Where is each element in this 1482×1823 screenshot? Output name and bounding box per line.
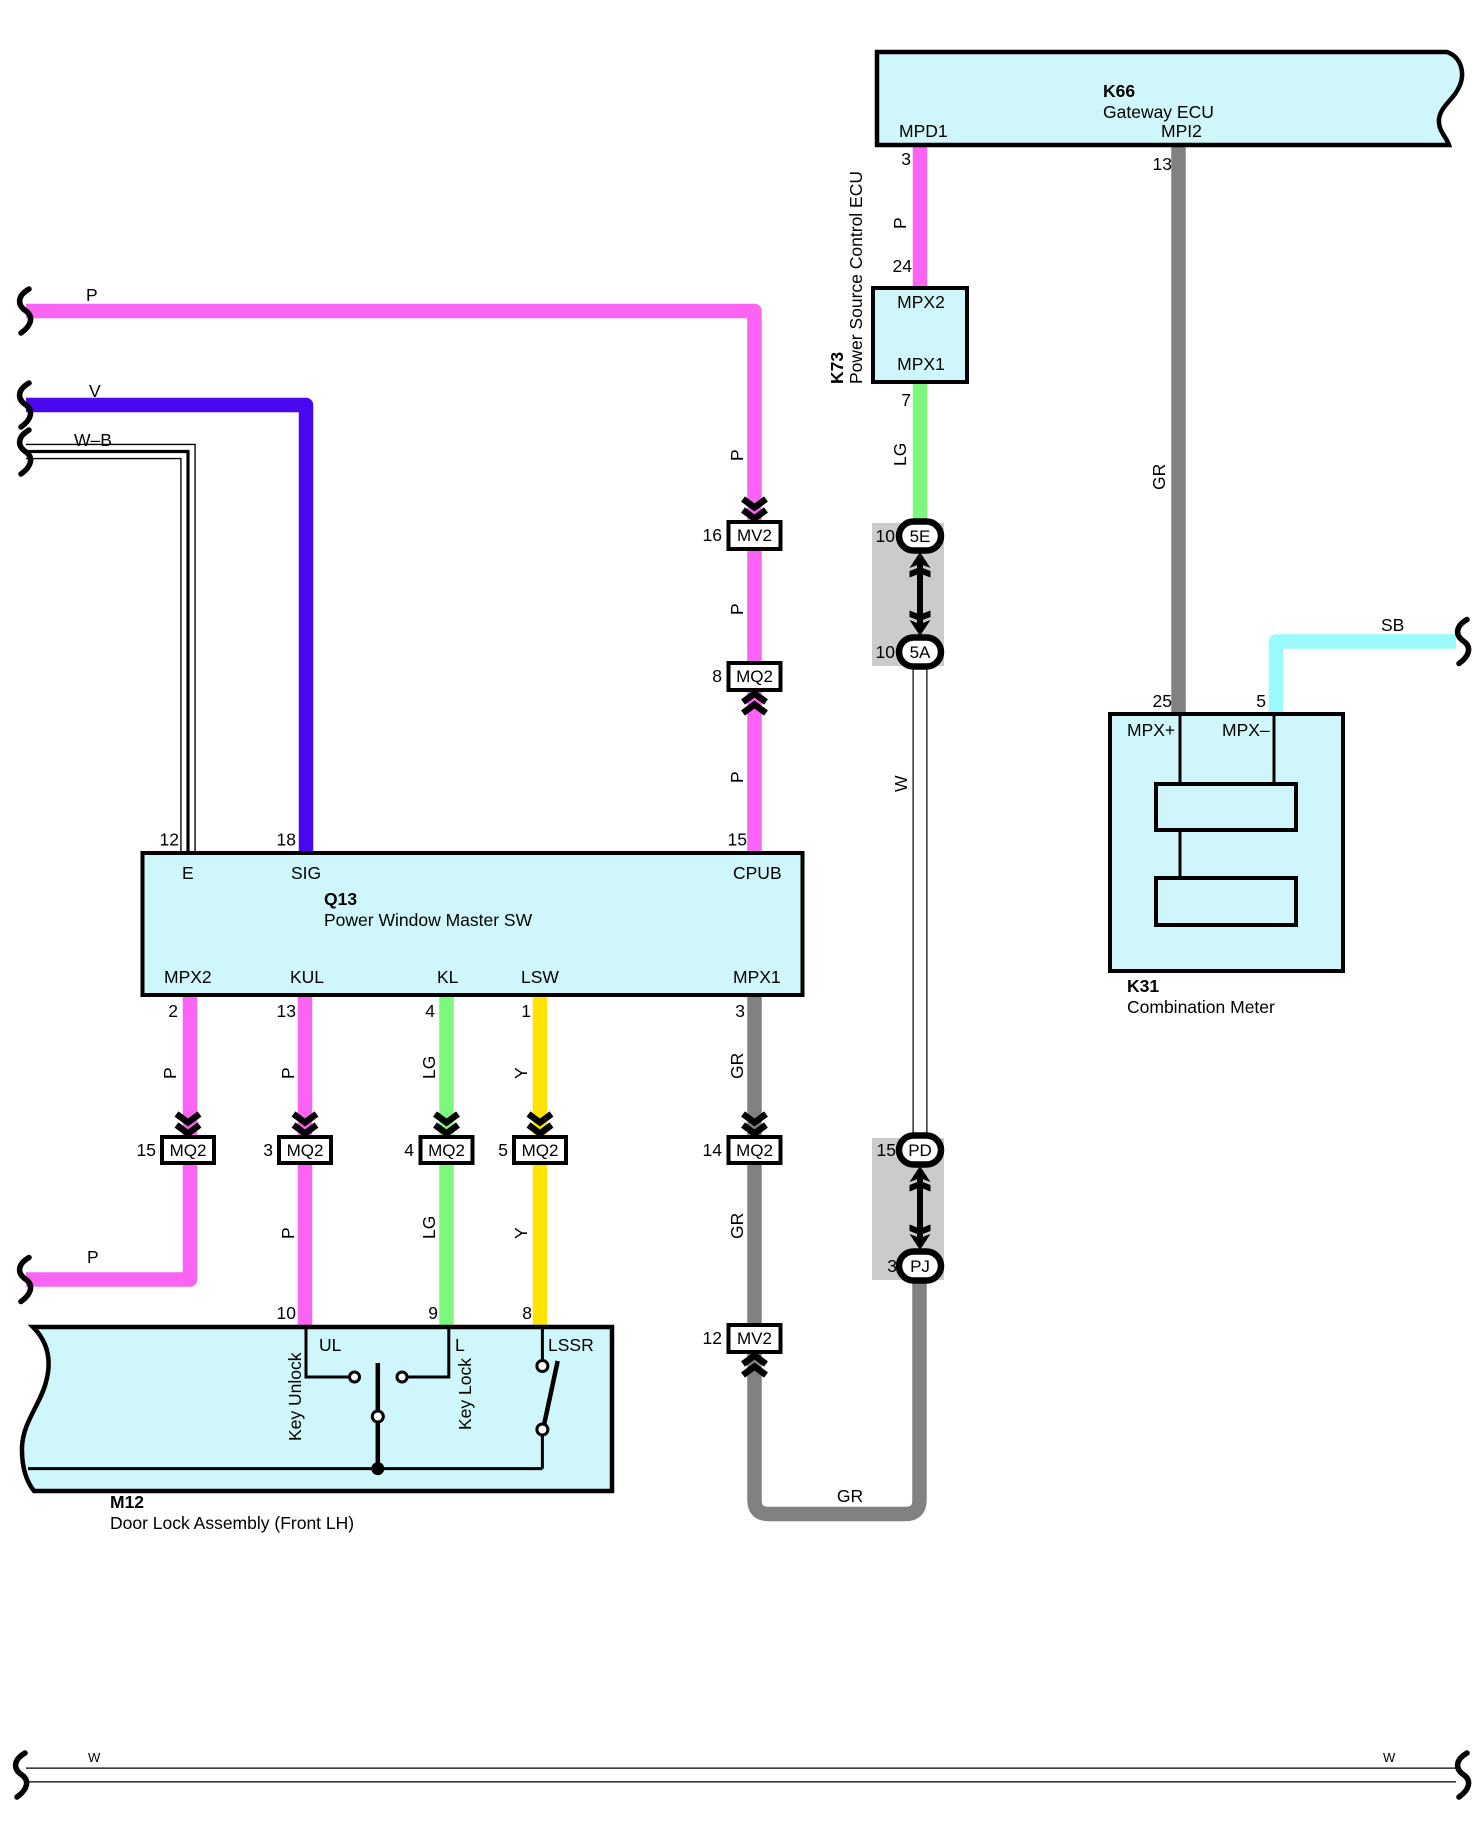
svg-text:K66: K66 xyxy=(1103,81,1135,101)
svg-text:SB: SB xyxy=(1381,615,1404,635)
svg-text:24: 24 xyxy=(893,256,913,276)
svg-text:LG: LG xyxy=(419,1216,439,1239)
wire W-B net (to E pin 12) xyxy=(26,452,188,857)
svg-text:3: 3 xyxy=(901,149,911,169)
svg-text:3: 3 xyxy=(887,1256,897,1276)
svg-text:12: 12 xyxy=(703,1328,722,1348)
junction 5A pin 10 xyxy=(876,638,941,667)
M12 junction xyxy=(371,1462,384,1475)
svg-text:W–B: W–B xyxy=(74,430,112,450)
wire LG (Q13 KL pin 4 to M12 pin 9) xyxy=(439,996,454,1332)
svg-text:Key Unlock: Key Unlock xyxy=(285,1352,305,1441)
svg-text:LSSR: LSSR xyxy=(548,1335,594,1355)
svg-text:MPX2: MPX2 xyxy=(164,967,212,987)
connector MQ2 pin 14 xyxy=(703,1114,781,1163)
svg-text:7: 7 xyxy=(901,390,911,410)
svg-text:25: 25 xyxy=(1153,691,1172,711)
junction PD pin 15 xyxy=(877,1136,941,1165)
svg-text:MQ2: MQ2 xyxy=(736,1141,773,1160)
wire W (bottom bus) xyxy=(26,1768,1456,1783)
svg-text:18: 18 xyxy=(277,830,296,850)
wire P net (left horizontal to CPUB pin 15) xyxy=(26,311,755,856)
svg-text:P: P xyxy=(86,285,98,305)
svg-text:E: E xyxy=(182,863,194,883)
wire W (5A to PD) xyxy=(913,664,928,1139)
tear SB right xyxy=(1458,620,1469,664)
svg-text:Y: Y xyxy=(511,1227,531,1239)
SW Q13 Power Window Master SW xyxy=(143,853,803,995)
svg-text:LG: LG xyxy=(419,1056,439,1079)
svg-text:Key Lock: Key Lock xyxy=(455,1358,475,1430)
M12 pin L conductor xyxy=(408,1329,449,1377)
svg-text:14: 14 xyxy=(703,1140,723,1160)
svg-text:KL: KL xyxy=(437,967,459,987)
svg-text:GR: GR xyxy=(727,1213,747,1239)
wire SB (to K31 MPX- pin 5) xyxy=(1276,642,1456,717)
svg-text:MQ2: MQ2 xyxy=(170,1141,207,1160)
svg-text:8: 8 xyxy=(712,666,722,686)
svg-text:Power Source Control ECU: Power Source Control ECU xyxy=(846,171,866,384)
svg-text:MV2: MV2 xyxy=(737,1329,772,1348)
M12 LSSR blade xyxy=(544,1361,558,1425)
tear W bottom left xyxy=(16,1753,27,1797)
svg-text:Door Lock Assembly (Front LH): Door Lock Assembly (Front LH) xyxy=(110,1513,354,1533)
svg-text:P: P xyxy=(727,603,747,615)
svg-text:MQ2: MQ2 xyxy=(522,1141,559,1160)
M12 UL contact xyxy=(350,1372,360,1382)
wire GR (Q13 MPX1 pin 3 to connector PJ) xyxy=(755,996,920,1514)
svg-text:12: 12 xyxy=(160,830,179,850)
arrow 5E-5A xyxy=(910,552,931,636)
svg-text:Y: Y xyxy=(511,1067,531,1079)
wire Y (Q13 LSW pin 1 to M12 pin 8) xyxy=(533,996,548,1332)
svg-text:MPI2: MPI2 xyxy=(1161,121,1202,141)
svg-text:8: 8 xyxy=(522,1303,532,1323)
tear W bottom right xyxy=(1458,1753,1469,1797)
tear V left xyxy=(20,383,31,427)
svg-text:W: W xyxy=(891,775,911,792)
arrow PD-PJ xyxy=(910,1166,931,1250)
svg-text:9: 9 xyxy=(428,1303,438,1323)
ECU K73 Power Source Control ECU xyxy=(827,171,967,384)
svg-text:MPX1: MPX1 xyxy=(733,967,781,987)
svg-text:P: P xyxy=(727,771,747,783)
wire LG (K73 MPX1 pin 7 to connector 5E) xyxy=(913,380,928,527)
svg-text:K73: K73 xyxy=(827,352,847,384)
M12 arm pivot circle xyxy=(372,1411,383,1422)
connector MQ2 pin 5 xyxy=(498,1114,566,1163)
M12 pin UL conductor xyxy=(306,1329,348,1377)
connector MV2 pin 12 xyxy=(703,1325,781,1375)
svg-text:Q13: Q13 xyxy=(324,889,357,909)
svg-text:2: 2 xyxy=(168,1001,178,1021)
M12 LSSR conductor xyxy=(541,1329,544,1360)
svg-text:P: P xyxy=(160,1067,180,1079)
svg-text:5E: 5E xyxy=(910,527,931,546)
svg-text:4: 4 xyxy=(404,1140,414,1160)
svg-text:1: 1 xyxy=(521,1001,531,1021)
svg-text:MPX1: MPX1 xyxy=(897,354,945,374)
connector MQ2 pin 4 xyxy=(404,1114,472,1163)
svg-text:15: 15 xyxy=(877,1140,896,1160)
connector MQ2 pin 3 xyxy=(263,1114,331,1163)
svg-text:10: 10 xyxy=(876,642,896,662)
junction PJ pin 3 xyxy=(887,1252,941,1281)
svg-text:K31: K31 xyxy=(1127,976,1159,996)
svg-text:P: P xyxy=(278,1227,298,1239)
svg-text:MQ2: MQ2 xyxy=(736,667,773,686)
M12 key switch common arm xyxy=(376,1363,381,1469)
svg-text:15: 15 xyxy=(137,1140,156,1160)
svg-text:P: P xyxy=(727,449,747,461)
svg-text:Gateway ECU: Gateway ECU xyxy=(1103,102,1214,122)
M12 common wire xyxy=(28,1467,542,1470)
M12 Door Lock Assembly (Front LH) xyxy=(22,1327,612,1533)
svg-text:MPD1: MPD1 xyxy=(899,121,948,141)
tear W-B left xyxy=(20,430,31,474)
K31 Combination Meter xyxy=(1110,714,1343,1017)
connector MQ2 pin 15 xyxy=(137,1114,214,1163)
tear P bottom left xyxy=(20,1258,31,1302)
svg-text:MQ2: MQ2 xyxy=(287,1141,324,1160)
svg-text:Power Window Master SW: Power Window Master SW xyxy=(324,910,533,930)
svg-text:V: V xyxy=(89,381,101,401)
svg-text:5A: 5A xyxy=(910,643,931,662)
junction 5E pin 10 xyxy=(876,522,941,551)
connector MV2 pin 16 xyxy=(703,499,781,549)
svg-text:GR: GR xyxy=(837,1486,863,1506)
svg-text:PJ: PJ xyxy=(910,1257,930,1276)
svg-text:MPX–: MPX– xyxy=(1222,720,1270,740)
svg-text:PD: PD xyxy=(908,1141,932,1160)
svg-text:M12: M12 xyxy=(110,1492,144,1512)
svg-text:3: 3 xyxy=(263,1140,273,1160)
wire P (Q13 KUL pin 13 to M12 pin 10) xyxy=(298,996,313,1332)
M12 LSSR bottom contact xyxy=(537,1424,548,1435)
svg-text:10: 10 xyxy=(277,1303,297,1323)
svg-text:L: L xyxy=(455,1335,465,1355)
svg-text:GR: GR xyxy=(727,1053,747,1079)
svg-text:MV2: MV2 xyxy=(737,526,772,545)
connector MQ2 pin 8 xyxy=(712,663,780,713)
svg-text:W: W xyxy=(88,1750,101,1765)
M12 pin labels xyxy=(285,1335,594,1441)
svg-text:P: P xyxy=(87,1247,99,1267)
svg-text:MQ2: MQ2 xyxy=(428,1141,465,1160)
svg-text:W: W xyxy=(1383,1750,1396,1765)
ECU K66 Gateway ECU xyxy=(877,52,1462,145)
svg-text:16: 16 xyxy=(703,525,722,545)
tear P left xyxy=(20,289,31,333)
svg-text:LSW: LSW xyxy=(521,967,559,987)
M12 LSSR top contact xyxy=(537,1361,548,1372)
svg-text:4: 4 xyxy=(425,1001,435,1021)
connector shade PD-PJ xyxy=(872,1138,944,1280)
wire P (Q13 MPX2 pin 2 down and left) xyxy=(26,996,190,1280)
svg-text:Combination Meter: Combination Meter xyxy=(1127,997,1275,1017)
svg-text:KUL: KUL xyxy=(290,967,324,987)
svg-text:GR: GR xyxy=(1149,464,1169,490)
svg-text:5: 5 xyxy=(1256,691,1266,711)
connector shade 5E-5A xyxy=(872,523,944,666)
M12 L contact xyxy=(397,1372,407,1382)
svg-text:UL: UL xyxy=(319,1335,342,1355)
svg-text:3: 3 xyxy=(735,1001,745,1021)
wire P (K66 MPD1 pin 3 to K73 MPX2 pin 24) xyxy=(913,147,928,290)
svg-text:LG: LG xyxy=(890,443,910,466)
svg-text:MPX+: MPX+ xyxy=(1127,720,1175,740)
svg-text:SIG: SIG xyxy=(291,863,321,883)
svg-text:P: P xyxy=(278,1067,298,1079)
svg-text:MPX2: MPX2 xyxy=(897,292,945,312)
svg-text:P: P xyxy=(890,217,910,229)
wire V net (to SIG pin 18) xyxy=(26,405,306,856)
wire GR (K66 MPI2 pin 13 to K31 MPX+ pin 25) xyxy=(1171,145,1186,716)
M12 LSSR lower conductor xyxy=(541,1435,544,1469)
svg-text:10: 10 xyxy=(876,526,896,546)
svg-text:13: 13 xyxy=(277,1001,296,1021)
svg-text:CPUB: CPUB xyxy=(733,863,782,883)
svg-text:15: 15 xyxy=(728,830,747,850)
svg-text:5: 5 xyxy=(498,1140,508,1160)
svg-text:13: 13 xyxy=(1153,154,1172,174)
